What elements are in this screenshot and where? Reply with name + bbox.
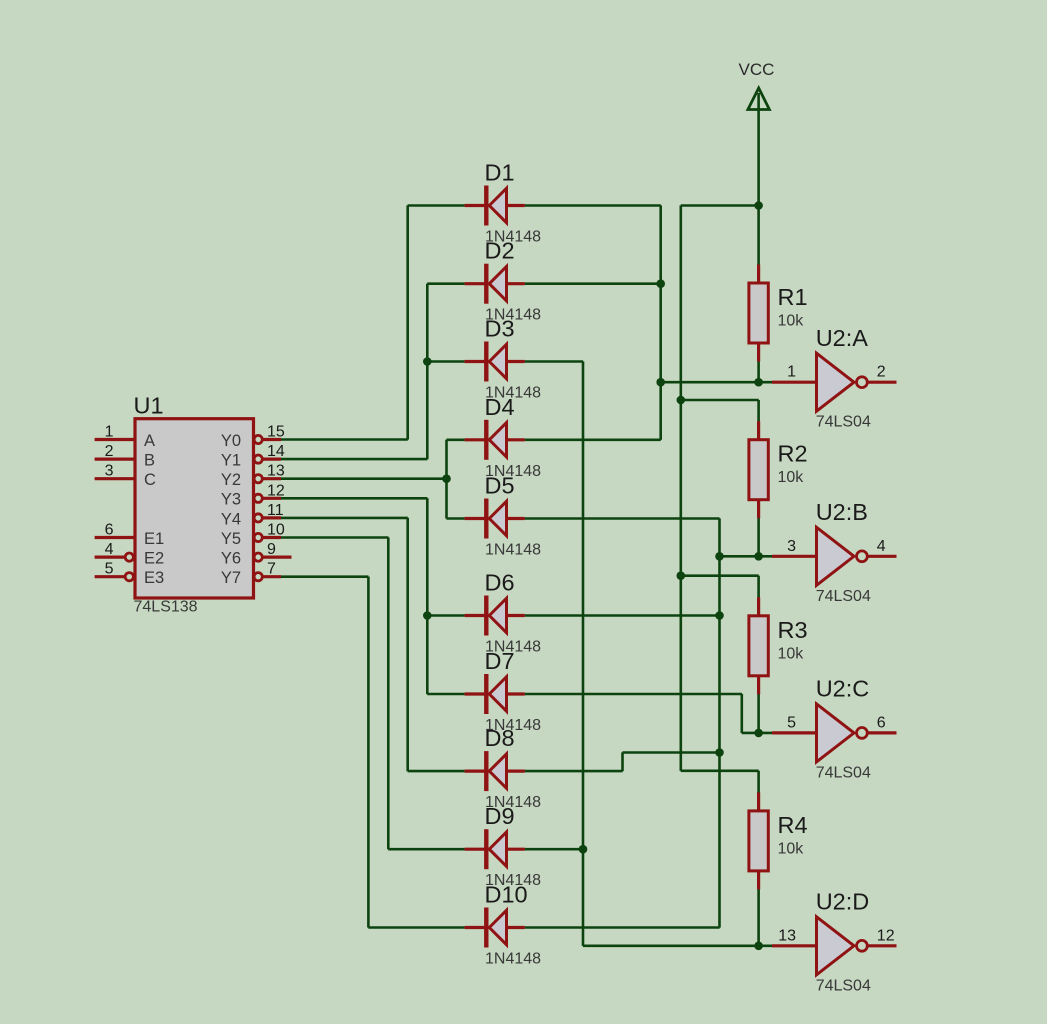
svg-text:D3: D3 xyxy=(485,316,515,342)
svg-text:11: 11 xyxy=(267,502,284,519)
svg-text:R2: R2 xyxy=(778,441,808,467)
pin 14 (Y1) of U1 xyxy=(254,455,281,463)
wire D7 anode to jog xyxy=(525,693,742,696)
pin 6 (E1) of U1 xyxy=(95,536,135,539)
svg-text:9: 9 xyxy=(267,541,276,558)
pin 2 (B) of U1 xyxy=(95,458,135,461)
wire R1 bottom to U2:A node xyxy=(757,362,760,383)
wire D9 anode to net-D riser xyxy=(525,848,583,851)
wire Y4 from pin 11 xyxy=(281,517,408,520)
wire D4 cathode to Y2 riser xyxy=(446,438,464,441)
wire D8 jog riser xyxy=(621,752,624,771)
inverter U2:C (74LS04) xyxy=(772,704,897,762)
svg-text:13: 13 xyxy=(267,463,285,480)
svg-text:R1: R1 xyxy=(778,284,808,310)
wire D2 cathode to Y1 riser xyxy=(427,282,465,285)
wire Y3 riser (pin12 down to D6/D7) xyxy=(426,498,429,694)
svg-text:E3: E3 xyxy=(144,569,164,587)
svg-text:1: 1 xyxy=(105,424,114,441)
svg-text:6: 6 xyxy=(105,522,114,539)
wire D7 jog to U2:C input xyxy=(742,732,773,735)
svg-text:74LS04: 74LS04 xyxy=(816,977,871,994)
junction D3 on Y1 riser xyxy=(423,357,432,366)
pin 4 (E2) of U1 xyxy=(95,553,134,561)
svg-text:74LS138: 74LS138 xyxy=(134,599,198,616)
wire D3 anode to net-D riser xyxy=(525,360,583,363)
inverter U2:B (74LS04) xyxy=(772,527,897,585)
svg-text:4: 4 xyxy=(105,541,114,558)
svg-text:D1: D1 xyxy=(485,160,515,186)
wire Y7 riser (pin7 down to D10) xyxy=(367,577,370,928)
wire R3 corner to R3 top xyxy=(757,576,760,599)
svg-text:3: 3 xyxy=(105,463,114,480)
svg-text:C: C xyxy=(144,471,156,489)
junction D2 on net-A xyxy=(656,279,665,288)
junction VCC rail / R3 feed xyxy=(677,571,686,580)
svg-text:U2:A: U2:A xyxy=(816,325,869,351)
wire D10 anode to net-B xyxy=(525,926,720,929)
pin 10 (Y5) of U1 xyxy=(254,533,281,541)
wire VCC rail to R2 top xyxy=(681,399,759,402)
wire Y5 riser (pin10 down to D9) xyxy=(387,537,390,849)
pin 7 (Y7) of U1 xyxy=(254,573,281,581)
svg-text:12: 12 xyxy=(267,482,285,499)
IC U1 74LS138 body xyxy=(135,419,254,598)
svg-text:Y7: Y7 xyxy=(221,569,241,587)
wire net-B riser (D5/D6/D8/D10 bus) xyxy=(718,518,721,927)
svg-text:A: A xyxy=(144,432,155,450)
junction R3 / U2:C input xyxy=(754,729,763,738)
wire D9 cathode to Y5 riser xyxy=(388,848,465,851)
svg-text:13: 13 xyxy=(778,927,796,944)
svg-text:D2: D2 xyxy=(485,238,515,264)
wire net-D to U2:D input xyxy=(583,944,773,947)
wire D4 anode to net-A xyxy=(525,438,661,441)
wire R4 bottom to U2:D node xyxy=(757,887,760,946)
diode D4 xyxy=(465,420,525,460)
svg-text:Y5: Y5 xyxy=(221,530,241,548)
wire net-A riser (D1/D2/D4 bus) xyxy=(659,205,662,440)
svg-text:E2: E2 xyxy=(144,550,164,568)
svg-text:U2:B: U2:B xyxy=(816,499,868,525)
wire VCC rail to R4 top xyxy=(681,769,759,772)
wire Y4 riser (pin11 down to D8) xyxy=(406,518,409,771)
wire Y7 from pin 7 xyxy=(281,575,369,578)
junction R1 / U2:A input xyxy=(754,378,763,387)
svg-text:10k: 10k xyxy=(778,840,805,857)
junction Y2 pin line / riser xyxy=(442,474,451,483)
junction R4 / U2:D input xyxy=(754,942,763,951)
svg-text:74LS04: 74LS04 xyxy=(816,764,871,781)
junction R2 / U2:B input xyxy=(754,552,763,561)
wire D8 upper run to net-B xyxy=(622,751,719,754)
pin 12 (Y3) of U1 xyxy=(254,494,281,502)
wire net-A to U2:A input xyxy=(661,381,774,384)
diode D9 xyxy=(465,829,525,869)
pin 9 (Y6) of U1 xyxy=(254,553,291,561)
wire D7 cathode to Y3 riser xyxy=(427,693,465,696)
svg-text:Y3: Y3 xyxy=(221,491,241,509)
wire Y2 riser (D4 down to D5) xyxy=(445,440,448,519)
svg-text:D5: D5 xyxy=(485,473,515,499)
svg-text:D9: D9 xyxy=(485,803,515,829)
svg-text:12: 12 xyxy=(877,927,895,944)
junction D6 on Y3 riser xyxy=(423,611,432,620)
svg-text:10: 10 xyxy=(267,522,285,539)
wire net-D riser (D3 down to D9 and U2:D) xyxy=(582,361,585,946)
diode D3 xyxy=(465,342,525,382)
junction D9 on net-D riser xyxy=(579,845,588,854)
svg-text:D7: D7 xyxy=(485,648,515,674)
svg-text:1N4148: 1N4148 xyxy=(485,542,541,559)
svg-text:VCC: VCC xyxy=(739,60,775,79)
junction VCC rail / R2 feed xyxy=(677,396,686,405)
diode D5 xyxy=(465,499,525,539)
wire Y5 from pin 10 xyxy=(281,536,389,539)
svg-text:U2:D: U2:D xyxy=(816,889,870,915)
svg-text:R4: R4 xyxy=(778,812,808,838)
wire Y2 from pin 13 xyxy=(281,477,447,480)
wire D1 cathode to Y0 riser xyxy=(408,204,465,207)
svg-text:D6: D6 xyxy=(485,570,515,596)
wire VCC rail to R3 top xyxy=(681,574,759,577)
wire D2 anode to net-A xyxy=(525,282,661,285)
wire Y3 from pin 12 xyxy=(281,497,428,500)
wire D5 anode to net-B xyxy=(525,517,720,520)
svg-text:1: 1 xyxy=(787,364,796,381)
wire Y0 riser (pin15 up to D1) xyxy=(406,205,409,439)
svg-text:1N4148: 1N4148 xyxy=(485,951,541,968)
junction net-B / U2:B input xyxy=(715,552,724,561)
svg-text:2: 2 xyxy=(877,364,886,381)
wire net-B to U2:B input xyxy=(719,555,773,558)
pin 11 (Y4) of U1 xyxy=(254,514,281,522)
inverter U2:D (74LS04) xyxy=(772,917,897,975)
junction D8 on net-B xyxy=(715,748,724,757)
wire R2 bottom to U2:B node xyxy=(757,517,760,556)
svg-text:D4: D4 xyxy=(485,394,515,420)
diode D6 xyxy=(465,596,525,636)
wire D5 cathode to Y2 riser xyxy=(446,517,464,520)
resistor R4 xyxy=(749,792,768,889)
diode D8 xyxy=(465,751,525,791)
pin 5 (E3) of U1 xyxy=(95,573,134,581)
wire VCC rail riser xyxy=(679,205,682,771)
svg-text:Y0: Y0 xyxy=(221,432,241,450)
wire D7 jog riser xyxy=(740,694,743,733)
svg-text:Y1: Y1 xyxy=(221,452,241,470)
resistor R1 xyxy=(749,265,768,362)
svg-text:U2:C: U2:C xyxy=(816,676,870,702)
svg-text:U1: U1 xyxy=(134,393,164,419)
wire D6 anode to net-B xyxy=(525,614,720,617)
svg-text:B: B xyxy=(144,452,155,470)
wire D8 cathode to Y4 riser xyxy=(408,770,465,773)
svg-text:5: 5 xyxy=(105,561,114,578)
wire Y0 from pin 15 xyxy=(281,438,408,441)
svg-text:10k: 10k xyxy=(778,645,805,662)
wire Y1 riser (D2/D3 down to pin14) xyxy=(426,284,429,460)
wire D8 anode lower run xyxy=(525,770,623,773)
pin 1 (A) of U1 xyxy=(95,438,135,441)
wire R3 bottom to U2:C node xyxy=(757,693,760,733)
svg-text:4: 4 xyxy=(877,538,886,555)
inverter U2:A (74LS04) xyxy=(772,353,897,411)
svg-text:15: 15 xyxy=(267,424,285,441)
svg-text:74LS04: 74LS04 xyxy=(816,588,871,605)
svg-text:Y4: Y4 xyxy=(221,510,241,528)
pin 13 (Y2) of U1 xyxy=(254,475,281,483)
wire Y1 from pin 14 xyxy=(281,458,428,461)
resistor R2 xyxy=(749,421,768,518)
junction net-A / U2:A input xyxy=(656,378,665,387)
power symbol VCC xyxy=(748,88,770,206)
pin 3 (C) of U1 xyxy=(95,477,135,480)
diode D7 xyxy=(465,674,525,714)
svg-text:Y6: Y6 xyxy=(221,550,241,568)
junction D6 on net-B xyxy=(715,611,724,620)
wire D10 cathode to Y7 riser xyxy=(368,926,464,929)
svg-text:14: 14 xyxy=(267,443,285,460)
junction VCC / top rail xyxy=(754,201,763,210)
svg-text:5: 5 xyxy=(787,714,796,731)
wire D1 anode to net-A xyxy=(525,204,661,207)
pin 15 (Y0) of U1 xyxy=(254,435,281,443)
svg-text:D10: D10 xyxy=(485,882,528,908)
diode D1 xyxy=(465,186,525,226)
svg-text:10k: 10k xyxy=(778,469,805,486)
svg-text:74LS04: 74LS04 xyxy=(816,414,871,431)
wire R2 corner to R2 top xyxy=(757,400,760,423)
svg-text:10k: 10k xyxy=(778,313,805,330)
wire D6 cathode to Y3 riser xyxy=(427,614,465,617)
svg-text:7: 7 xyxy=(267,561,276,578)
svg-text:6: 6 xyxy=(877,714,886,731)
svg-text:E1: E1 xyxy=(144,530,164,548)
diode D10 xyxy=(465,908,525,948)
wire D3 cathode to Y1 riser xyxy=(427,360,465,363)
diode D2 xyxy=(465,264,525,304)
wire R4 corner to R4 top xyxy=(757,771,760,794)
svg-text:3: 3 xyxy=(787,538,796,555)
svg-text:Y2: Y2 xyxy=(221,471,241,489)
svg-text:2: 2 xyxy=(105,443,114,460)
svg-text:D8: D8 xyxy=(485,725,515,751)
wire VCC top rail xyxy=(681,204,759,207)
resistor R3 xyxy=(749,597,768,694)
wire VCC junction to R1 top xyxy=(757,206,760,266)
svg-text:R3: R3 xyxy=(778,617,808,643)
